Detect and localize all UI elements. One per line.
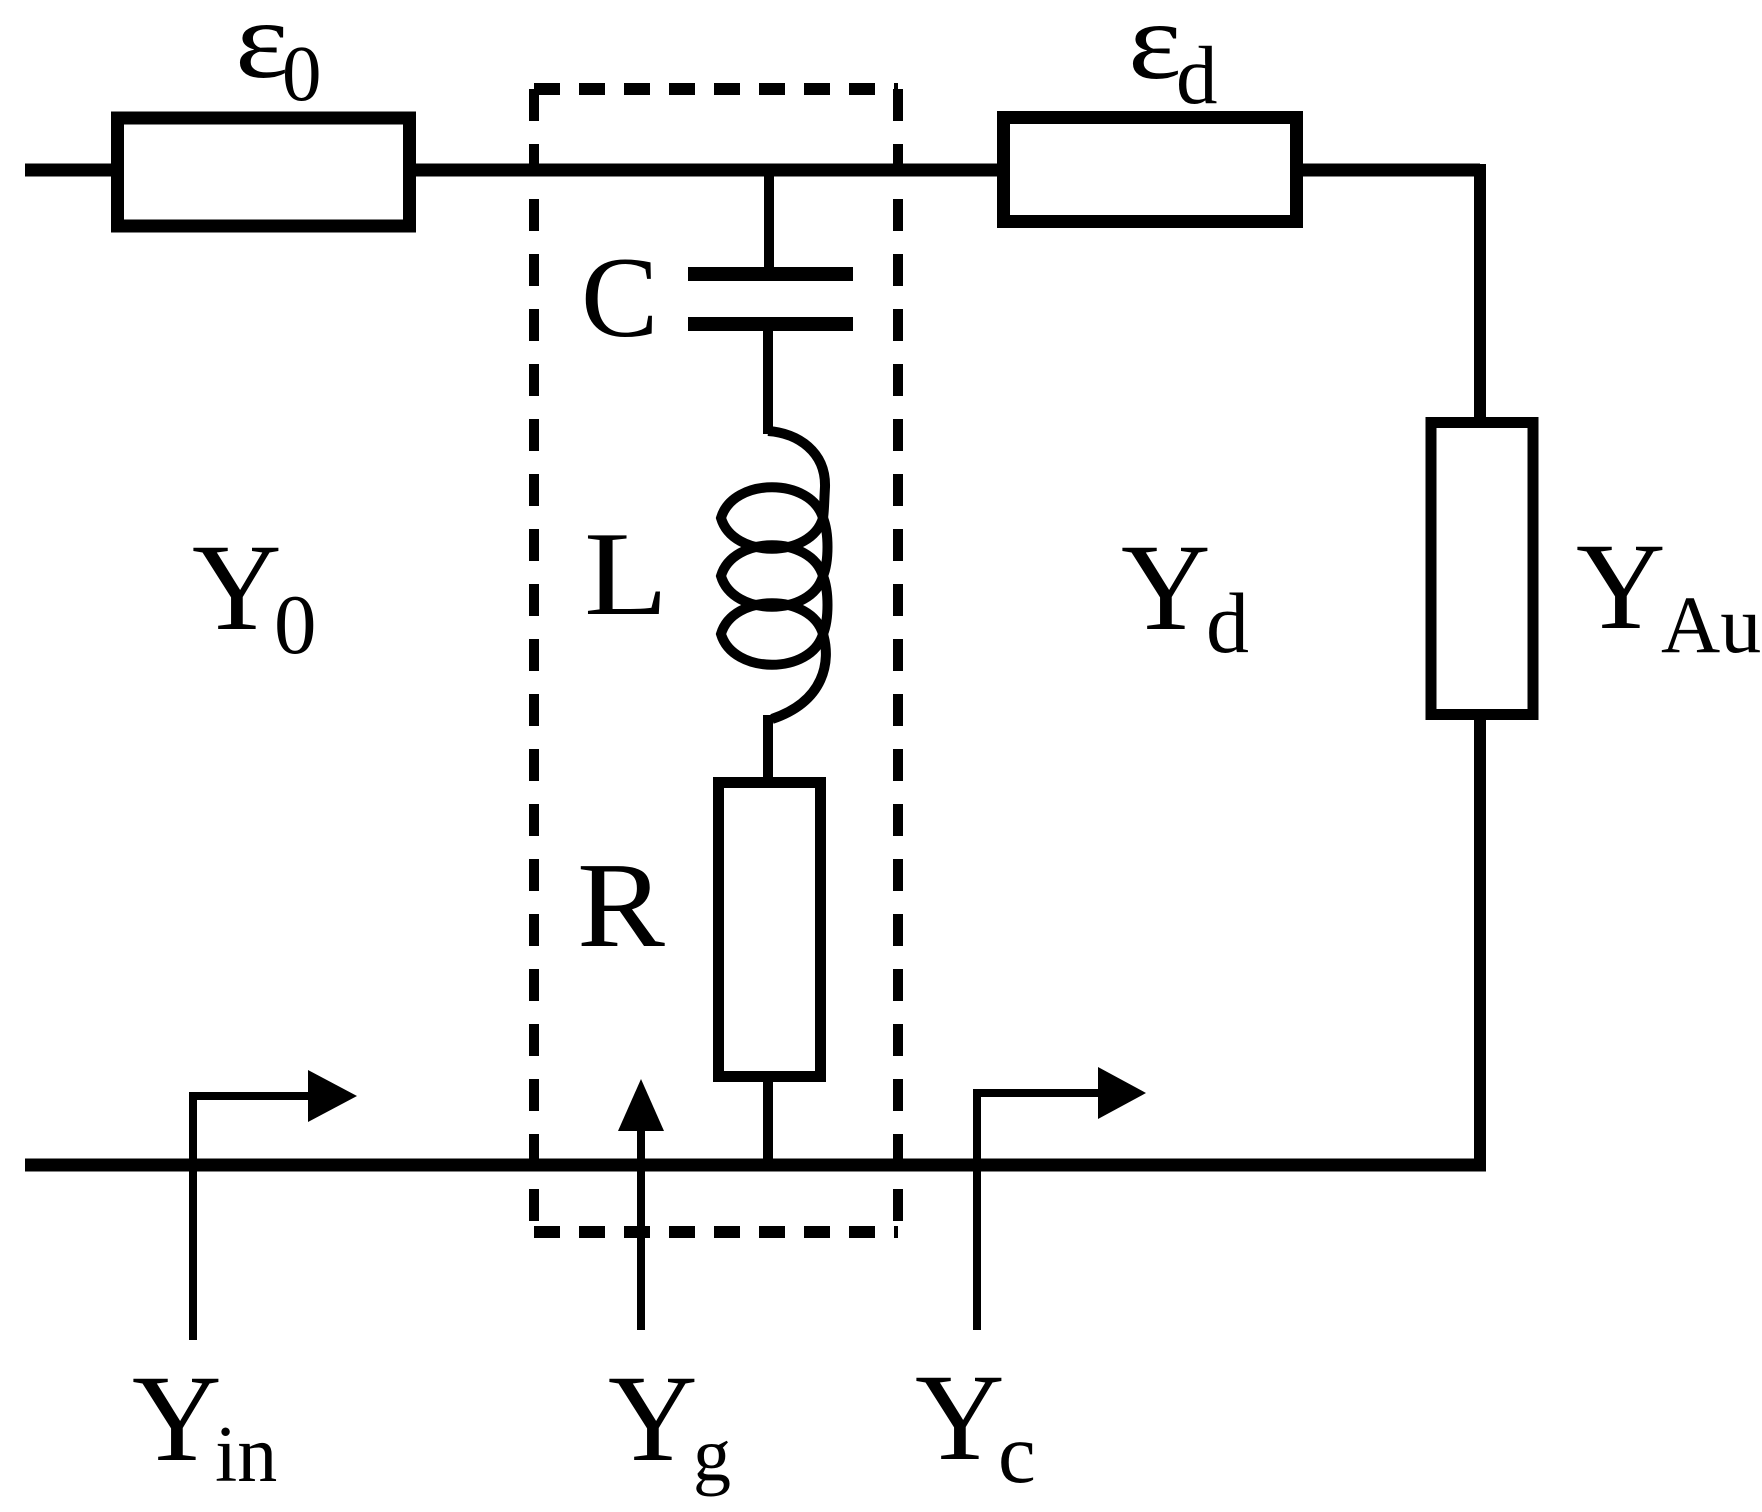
svg-text:in: in (215, 1411, 277, 1499)
svg-text:ε: ε (235, 0, 289, 101)
svg-text:0: 0 (274, 578, 317, 672)
svg-text:Y: Y (1121, 519, 1211, 656)
svg-text:R: R (577, 838, 665, 973)
svg-text:Y: Y (132, 1350, 222, 1487)
svg-text:Y: Y (608, 1350, 698, 1487)
svg-text:Y: Y (192, 519, 282, 656)
svg-text:C: C (581, 234, 658, 362)
svg-text:c: c (998, 1407, 1036, 1501)
svg-text:L: L (584, 507, 668, 640)
svg-text:Au: Au (1661, 579, 1761, 670)
svg-text:Y: Y (915, 1349, 1005, 1486)
svg-text:ε: ε (1128, 0, 1182, 102)
svg-text:Y: Y (1576, 518, 1666, 655)
svg-text:g: g (693, 1413, 731, 1497)
svg-text:d: d (1176, 29, 1218, 121)
svg-text:d: d (1206, 575, 1249, 671)
svg-text:0: 0 (282, 31, 322, 118)
